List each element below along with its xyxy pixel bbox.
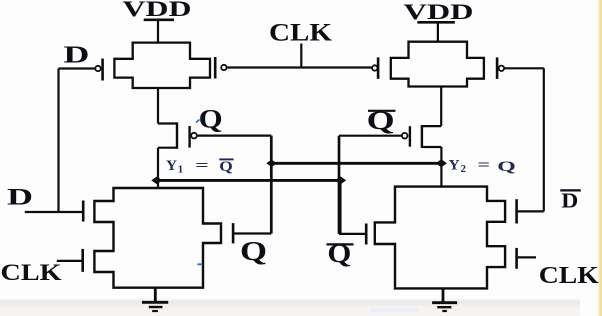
svg-text:Q: Q: [240, 236, 267, 266]
svg-text:D: D: [7, 184, 33, 209]
svg-text:Y: Y: [449, 156, 460, 173]
svg-text:1: 1: [178, 163, 184, 175]
svg-text:D: D: [561, 189, 578, 213]
svg-text:CLK: CLK: [1, 260, 63, 286]
svg-text:Q: Q: [497, 158, 516, 175]
svg-text:VDD: VDD: [123, 0, 192, 21]
svg-text:Q: Q: [219, 158, 233, 175]
svg-text:2: 2: [461, 163, 467, 175]
svg-text:VDD: VDD: [404, 0, 474, 24]
svg-text:Y: Y: [166, 157, 177, 174]
svg-text:CLK: CLK: [269, 18, 332, 47]
svg-text:D: D: [63, 43, 89, 69]
svg-text:CLK: CLK: [539, 263, 599, 289]
svg-text:=: =: [478, 156, 491, 173]
svg-text:=: =: [195, 157, 209, 174]
svg-text:Q: Q: [199, 104, 223, 133]
